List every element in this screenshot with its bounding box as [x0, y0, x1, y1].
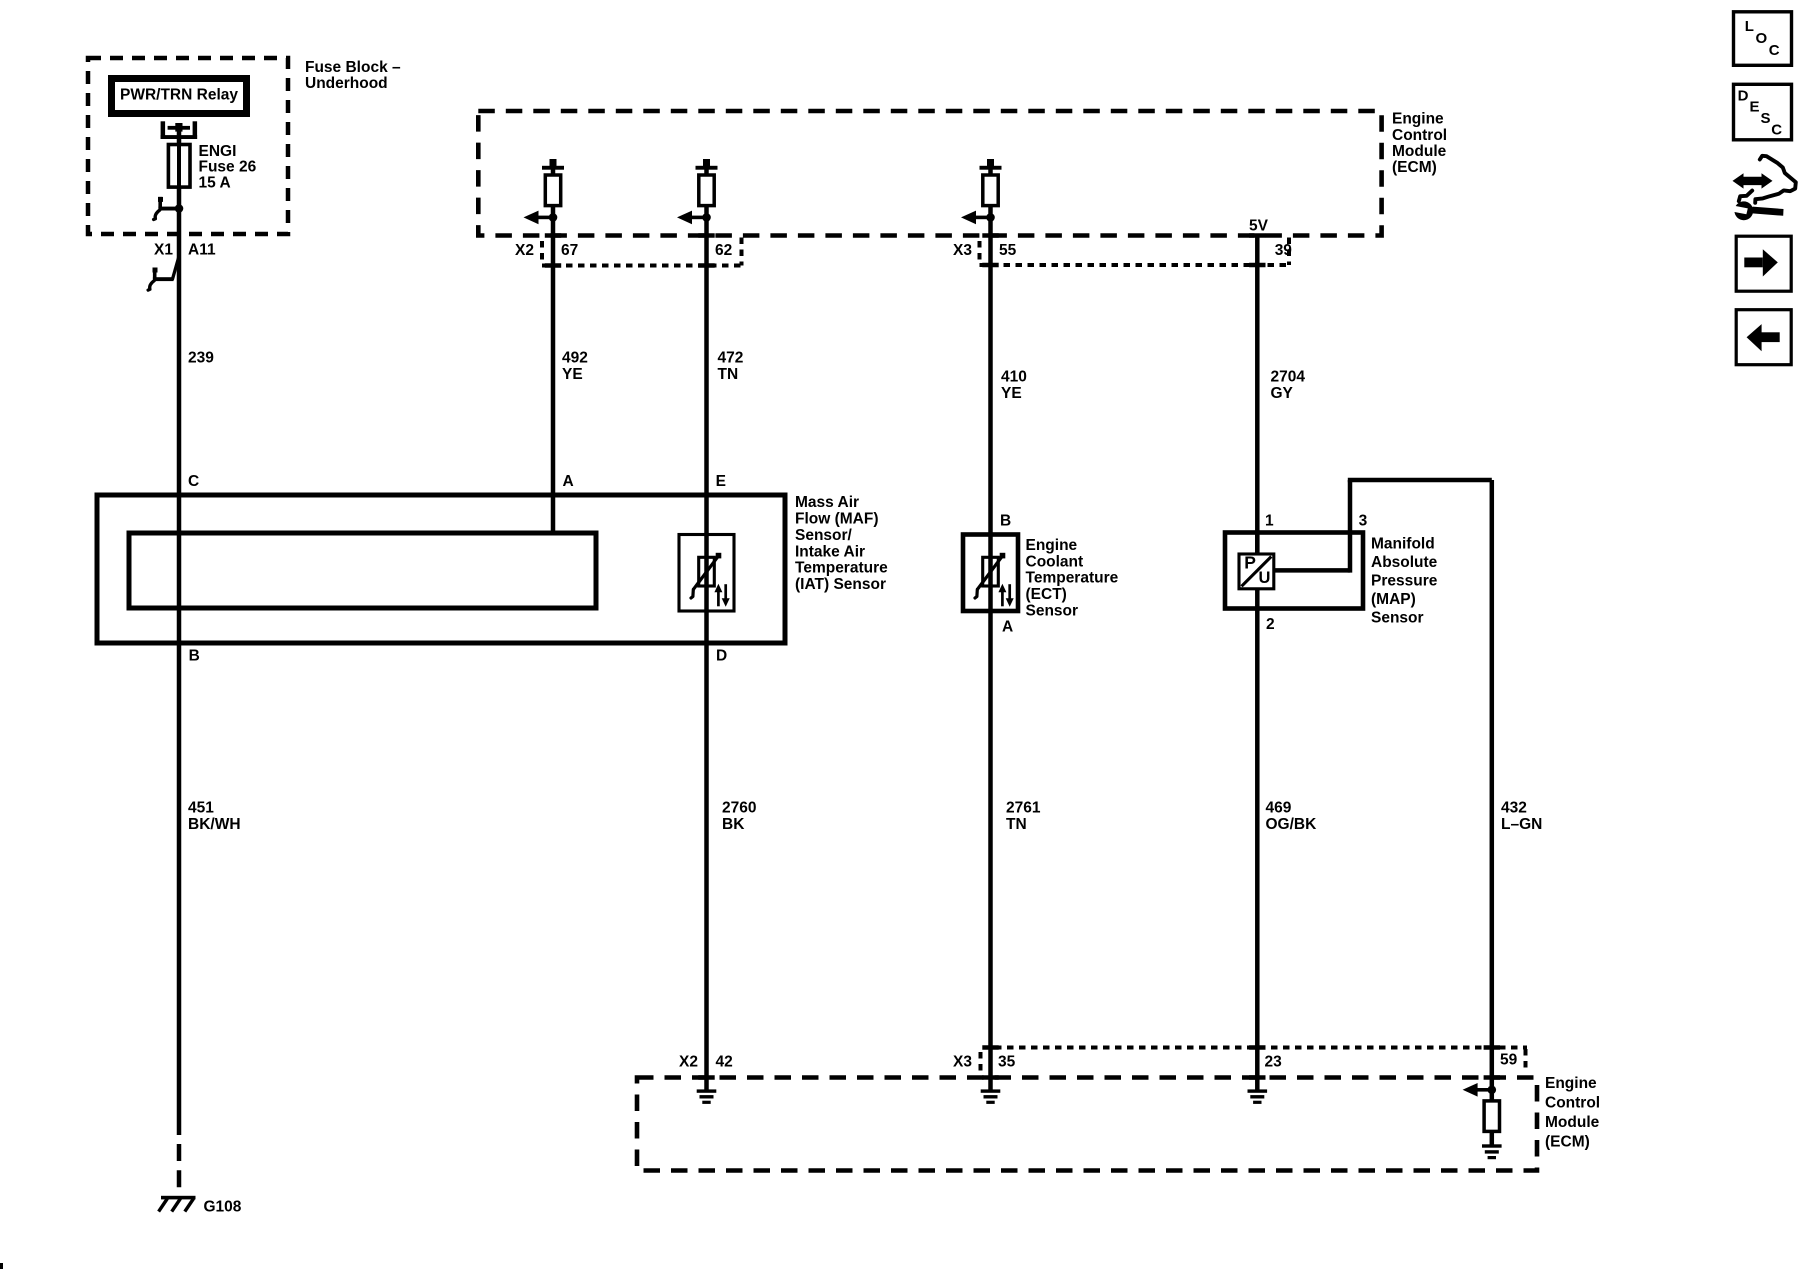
svg-text:C: C: [1771, 121, 1782, 138]
svg-text:Control: Control: [1545, 1095, 1600, 1112]
svg-text:492: 492: [562, 350, 588, 367]
svg-text:35: 35: [998, 1054, 1016, 1071]
svg-text:ENGI: ENGI: [199, 143, 237, 160]
svg-text:C: C: [1769, 42, 1780, 59]
svg-text:P: P: [1244, 553, 1256, 573]
svg-text:5V: 5V: [1249, 217, 1269, 234]
svg-text:1: 1: [1265, 513, 1274, 530]
svg-text:Sensor: Sensor: [1371, 610, 1424, 627]
svg-text:Module: Module: [1545, 1114, 1600, 1131]
svg-text:TN: TN: [1006, 816, 1027, 833]
svg-text:YE: YE: [1001, 385, 1022, 402]
svg-text:Underhood: Underhood: [305, 75, 388, 92]
svg-text:A11: A11: [188, 242, 216, 259]
svg-text:C: C: [188, 473, 199, 490]
svg-text:Manifold: Manifold: [1371, 536, 1435, 553]
svg-text:Intake Air: Intake Air: [795, 543, 865, 560]
svg-text:X3: X3: [953, 242, 972, 259]
svg-text:(ECT): (ECT): [1026, 586, 1067, 603]
svg-text:Fuse 26: Fuse 26: [199, 159, 257, 176]
svg-text:D: D: [716, 648, 727, 665]
svg-text:2: 2: [1266, 616, 1275, 633]
svg-text:410: 410: [1001, 369, 1027, 386]
svg-text:E: E: [716, 473, 726, 490]
svg-text:Engine: Engine: [1545, 1075, 1597, 1092]
svg-text:Coolant: Coolant: [1026, 553, 1084, 570]
svg-text:451: 451: [188, 800, 214, 817]
svg-text:GY: GY: [1271, 385, 1294, 402]
svg-text:Control: Control: [1392, 127, 1447, 144]
svg-text:Absolute: Absolute: [1371, 554, 1438, 571]
svg-text:A: A: [563, 473, 574, 490]
svg-text:472: 472: [718, 350, 744, 367]
svg-text:BK: BK: [722, 816, 745, 833]
svg-text:U: U: [1259, 569, 1271, 587]
svg-text:Mass Air: Mass Air: [795, 494, 859, 511]
svg-text:S: S: [1761, 110, 1771, 127]
svg-text:BK/WH: BK/WH: [188, 816, 241, 833]
svg-text:(MAP): (MAP): [1371, 591, 1416, 608]
svg-text:Temperature: Temperature: [1026, 570, 1119, 587]
svg-text:59: 59: [1500, 1052, 1518, 1069]
svg-text:15 A: 15 A: [199, 174, 231, 191]
svg-text:Temperature: Temperature: [795, 560, 888, 577]
svg-text:G108: G108: [204, 1199, 242, 1216]
svg-text:Fuse Block –: Fuse Block –: [305, 59, 401, 76]
svg-text:D: D: [1738, 88, 1749, 105]
svg-text:Sensor: Sensor: [1026, 602, 1079, 619]
svg-text:(ECM): (ECM): [1545, 1134, 1590, 1151]
svg-text:X2: X2: [679, 1054, 698, 1071]
svg-text:A: A: [1002, 619, 1013, 636]
svg-text:469: 469: [1266, 800, 1292, 817]
svg-text:Flow (MAF): Flow (MAF): [795, 511, 879, 528]
svg-text:62: 62: [715, 242, 732, 259]
svg-text:OG/BK: OG/BK: [1266, 816, 1318, 833]
svg-text:(IAT) Sensor: (IAT) Sensor: [795, 576, 886, 593]
svg-text:2760: 2760: [722, 800, 756, 817]
svg-text:L–GN: L–GN: [1501, 816, 1542, 833]
svg-text:L: L: [1745, 18, 1754, 35]
svg-text:X1: X1: [154, 242, 173, 259]
svg-text:Engine: Engine: [1392, 111, 1444, 128]
svg-text:Engine: Engine: [1026, 537, 1078, 554]
svg-text:X3: X3: [953, 1054, 972, 1071]
svg-text:2761: 2761: [1006, 800, 1041, 817]
svg-text:B: B: [189, 648, 200, 665]
svg-text:Sensor/: Sensor/: [795, 527, 853, 544]
svg-text:Pressure: Pressure: [1371, 573, 1438, 590]
svg-text:3: 3: [1359, 513, 1368, 530]
svg-text:O: O: [1756, 30, 1768, 47]
svg-text:67: 67: [561, 242, 578, 259]
svg-text:X2: X2: [515, 242, 534, 259]
svg-text:2704: 2704: [1271, 369, 1306, 386]
svg-text:239: 239: [188, 350, 214, 367]
svg-text:E: E: [1750, 99, 1760, 116]
svg-text:55: 55: [999, 242, 1017, 259]
svg-text:TN: TN: [718, 366, 739, 383]
svg-text:YE: YE: [562, 366, 583, 383]
svg-text:42: 42: [716, 1054, 733, 1071]
svg-text:B: B: [1000, 513, 1011, 530]
svg-text:(ECM): (ECM): [1392, 159, 1437, 176]
svg-text:23: 23: [1265, 1054, 1283, 1071]
svg-text:Module: Module: [1392, 143, 1447, 160]
svg-text:PWR/TRN Relay: PWR/TRN Relay: [120, 86, 238, 103]
svg-text:432: 432: [1501, 800, 1527, 817]
